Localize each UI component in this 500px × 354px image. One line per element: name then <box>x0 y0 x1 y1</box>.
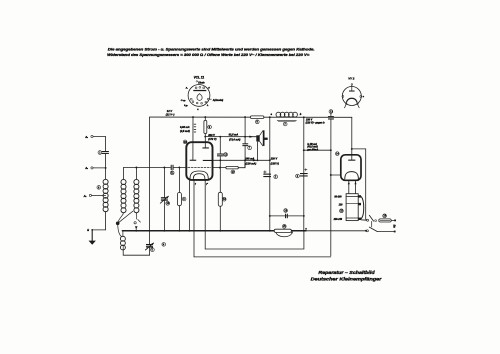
wire b down to bus (c) <box>303 117 305 231</box>
VY2 filament leads <box>348 180 350 193</box>
node on grid line <box>135 167 137 169</box>
wire y150 to rectifier cathode riser <box>304 149 331 151</box>
svg-text:In 50 mA: In 50 mA <box>307 144 317 146</box>
svg-text:f₂: f₂ <box>197 109 199 111</box>
wire rectifier cathode riser <box>330 120 332 256</box>
cathode arch outer <box>190 171 208 179</box>
node rail junction triode anode feed <box>192 116 194 118</box>
band switch pivot <box>116 222 120 226</box>
cathode lead to bus <box>188 180 190 231</box>
wire A1 to coil tap <box>92 194 106 196</box>
wire A2 to node <box>93 167 105 169</box>
wire grid node to trimmer 10 <box>163 168 165 198</box>
current arrow on anode line <box>249 136 253 138</box>
chassis bus wire <box>122 230 306 232</box>
node riser y150 junction <box>330 149 332 151</box>
wire vertical x220 <box>219 137 221 154</box>
svg-text:VCL 11: VCL 11 <box>194 76 205 80</box>
current arrow 140mA <box>253 159 257 161</box>
resistor 3 (grid leak) <box>177 193 186 206</box>
wire riser to VY2 cathode <box>331 174 341 176</box>
cathode arch inner <box>193 174 205 179</box>
electrolytic capacitor 2a <box>263 171 277 179</box>
svg-text:A₃: A₃ <box>84 135 88 139</box>
node rail junction screen feed <box>204 116 206 118</box>
node bus-resistor16 junction <box>219 230 221 232</box>
node junction b-line y150 <box>303 149 305 151</box>
filament lead f <box>193 180 195 257</box>
node 200V junction <box>204 136 206 138</box>
wire 200V line to speaker <box>205 136 256 138</box>
trimmer capacitor 10 <box>160 196 170 205</box>
svg-text:A₁: A₁ <box>83 194 87 198</box>
VY2 anode lead and bar <box>351 155 353 160</box>
HT rail wire (top bus) <box>150 116 352 118</box>
svg-text:(12 V~): (12 V~) <box>166 112 175 116</box>
svg-text:(216 V)– gegen b: (216 V)– gegen b <box>305 122 325 125</box>
node A2 junction <box>105 167 107 169</box>
fuse <box>379 214 391 222</box>
tube VCL11 envelope <box>186 142 212 180</box>
filament lead f2 <box>204 180 206 249</box>
electrolytic capacitor 2b <box>296 169 308 178</box>
wire coil 6 bottom to earth <box>92 212 105 230</box>
node riser cathode junction <box>330 174 332 176</box>
svg-text:VY 2: VY 2 <box>348 76 355 80</box>
node anode-line cap7 junction <box>244 136 246 138</box>
resistor 9 vertical <box>204 120 212 133</box>
node rail junction coupling cap <box>244 116 246 118</box>
wire cap 7 down <box>244 146 246 167</box>
node a-line screen junction <box>269 159 271 161</box>
wire grid node to resistor 3 <box>178 168 180 193</box>
wire regen return bottom <box>123 249 149 255</box>
potentiometer 21 on bus <box>274 224 293 236</box>
node grid-line junction <box>219 167 221 169</box>
svg-text:Diode: Diode <box>198 83 205 85</box>
svg-text:A(Anode): A(Anode) <box>212 100 224 102</box>
tube socket diagram VY 2 <box>342 76 364 107</box>
node b <box>303 116 305 118</box>
wire speaker bottom down <box>256 142 259 161</box>
wire lower mains <box>377 231 394 233</box>
wire A3 to C1 <box>93 137 105 151</box>
node anode mains junction <box>351 148 353 150</box>
svg-text:c: c <box>305 228 307 231</box>
wire coil L2b bottom stub <box>135 214 138 219</box>
node bus-resistor3 junction <box>178 230 180 232</box>
capacitor 13 (reservoir) <box>328 110 334 120</box>
wire C1 to A2 node <box>105 154 107 179</box>
node bus-switch junction <box>135 230 137 232</box>
wire anode to mains switch <box>352 149 367 220</box>
wire fuse to mains terminal <box>391 219 394 221</box>
wire grid to resistor 17 <box>213 167 226 169</box>
ground arrow <box>89 230 96 245</box>
speaker <box>256 130 267 146</box>
svg-text:140 mA: 140 mA <box>245 157 254 160</box>
svg-text:Deutscher Kleinempfänger: Deutscher Kleinempfänger <box>311 276 382 281</box>
regen coil <box>120 236 125 241</box>
svg-text:Bz: Bz <box>393 225 397 229</box>
current arrow dashes 0,83 mA <box>194 124 196 133</box>
pentode anode bar <box>202 147 209 148</box>
svg-text:A₂: A₂ <box>84 166 88 170</box>
svg-text:0,83 mA: 0,83 mA <box>180 126 190 129</box>
wire rail down through cap 7 <box>244 117 246 143</box>
svg-text:f: f <box>195 182 197 186</box>
mains wire bus to switch <box>306 230 366 232</box>
wire heater return H2 <box>194 256 331 258</box>
svg-text:(120 mA): (120 mA) <box>246 163 257 166</box>
wire a down to bus <box>269 117 271 231</box>
wire rail corner down to VY2 anode <box>351 117 353 155</box>
wire bus end down to regen coil <box>122 231 124 236</box>
band switch blade <box>118 211 133 223</box>
svg-text:92,5 mA: 92,5 mA <box>229 134 239 137</box>
node tone-line right junction <box>303 215 305 217</box>
svg-text:120: 120 <box>339 205 344 207</box>
wire resistor 3 to bus <box>178 206 180 231</box>
svg-text:(73,4 mA): (73,4 mA) <box>229 138 240 141</box>
svg-text:C+g₃: C+g₃ <box>181 100 186 102</box>
svg-text:90-100: 90-100 <box>334 197 342 199</box>
node bus-cathode junction <box>188 230 190 232</box>
node a <box>269 116 271 118</box>
wire rail to triode anode <box>192 117 194 160</box>
wire rail left corner down to trimmer 5 <box>149 117 151 244</box>
choke coil in rail <box>276 112 297 126</box>
node junction x220 <box>219 136 221 138</box>
wire cap12 to resistor 16 <box>219 157 221 193</box>
circled label 4 (floating) <box>162 243 166 247</box>
tube socket diagram VCL 11 <box>181 76 224 111</box>
svg-text:ges.50mA: ges.50mA <box>306 149 318 151</box>
wire node down to coil L2b <box>135 168 137 180</box>
svg-text:Die angegebenen Strom - u. Spa: Die angegebenen Strom - u. Spannungswert… <box>108 48 315 52</box>
wire heater return H1 <box>205 231 304 249</box>
wire coil L2a bottom to switch pivot <box>118 214 123 222</box>
capacitor 19 (tone) <box>284 209 288 219</box>
wire grid line down to coil L2a <box>123 168 125 180</box>
VY2 cathode arch <box>345 172 359 179</box>
grid dashed line <box>188 167 210 169</box>
tuning coil L2a <box>121 179 126 184</box>
svg-text:(2,5 mA): (2,5 mA) <box>180 130 190 133</box>
triode anode bar <box>190 160 197 161</box>
node bus-speakerline junction <box>269 230 271 232</box>
tube VY2 envelope <box>341 155 361 181</box>
trimmer capacitor 5 <box>145 243 154 252</box>
svg-text:f′: f′ <box>206 182 208 186</box>
circled label 14 <box>335 152 339 156</box>
wire ballast tap to mains switch <box>361 219 367 221</box>
screen bar to right wall <box>203 160 213 161</box>
grid coupling capacitor 11 <box>170 165 174 175</box>
wire trimmer 10 to bus <box>163 201 165 231</box>
node screen-line junction <box>219 159 221 161</box>
node bus-trimmer5 junction <box>149 230 151 232</box>
node bus-trimmer10 junction <box>163 230 165 232</box>
resistor 17 horizontal <box>226 166 238 173</box>
svg-text:E: E <box>87 228 89 232</box>
tuning coil L2b <box>134 179 139 184</box>
svg-text:g: g <box>208 87 210 89</box>
antenna coil 6 <box>97 179 108 211</box>
resistor 16 <box>218 192 226 206</box>
capacitor 7 <box>242 143 251 149</box>
svg-text:Widerstand des Spannungsmesser: Widerstand des Spannungsmessers = 300 00… <box>107 53 309 57</box>
svg-text:0,g₂: 0,g₂ <box>184 105 188 107</box>
svg-text:Reparatur – Schaltbild: Reparatur – Schaltbild <box>318 270 375 275</box>
svg-text:220-240: 220-240 <box>333 218 343 221</box>
node screen-line cap7 junction <box>244 159 246 161</box>
mains switch <box>366 215 377 232</box>
node tone-line left junction <box>269 215 271 217</box>
wire rail into resistor 9v <box>204 117 206 148</box>
svg-text:(43,5 mA): (43,5 mA) <box>307 146 318 149</box>
svg-text:A₂: A₂ <box>185 88 189 90</box>
wire pivot to regen coil top <box>118 225 122 237</box>
svg-text:(172 V): (172 V) <box>208 138 216 141</box>
svg-text:f₁: f₁ <box>207 105 209 107</box>
wire resistor 16 to bus <box>219 206 221 231</box>
wire tone cap line <box>270 215 304 217</box>
svg-text:b: b <box>300 113 302 116</box>
wire screen line 140mA <box>213 159 270 161</box>
svg-text:(195 V): (195 V) <box>271 162 279 165</box>
switch contact 2 <box>134 220 140 231</box>
ballast resistor assembly <box>333 194 364 221</box>
node c <box>303 230 305 232</box>
grid wire (tuned circuit line) <box>124 167 171 169</box>
capacitor 12 <box>217 153 228 157</box>
svg-text:220 V: 220 V <box>270 158 278 161</box>
svg-text:a: a <box>271 113 273 116</box>
resistor 9h in rail <box>250 116 264 124</box>
circled label 20 at tube <box>183 140 187 144</box>
wire resistor 17 up to screen line <box>238 160 245 167</box>
capacitor C1 <box>98 151 109 155</box>
